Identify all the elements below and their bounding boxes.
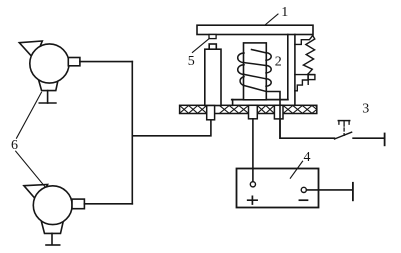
svg-text:2: 2 [275, 55, 282, 70]
svg-text:4: 4 [304, 150, 311, 165]
svg-text:3: 3 [362, 102, 369, 117]
svg-text:5: 5 [188, 54, 195, 69]
svg-text:6: 6 [11, 138, 18, 153]
svg-text:1: 1 [281, 5, 288, 20]
